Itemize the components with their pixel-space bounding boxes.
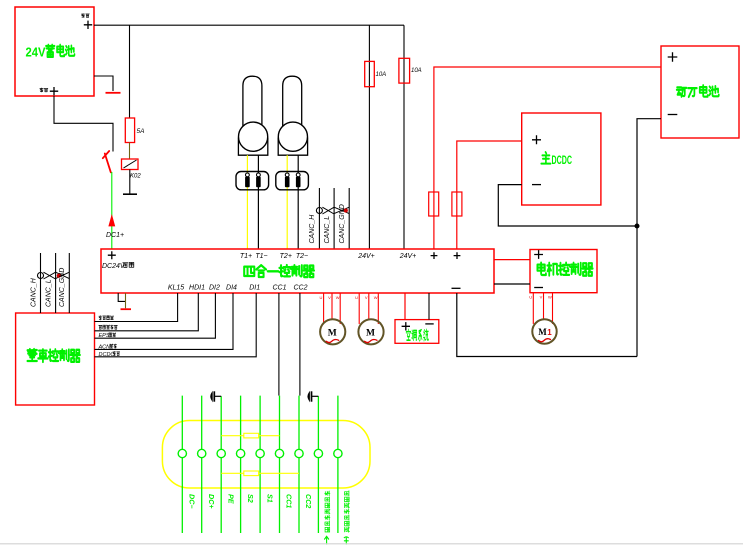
svg-text:KL15: KL15 (168, 285, 184, 292)
svg-text:CC1: CC1 (272, 285, 286, 292)
svg-text:DI2: DI2 (209, 285, 220, 292)
svg-text:1: 1 (547, 328, 552, 337)
svg-text:CC1: CC1 (285, 494, 294, 508)
svg-text:T1−: T1− (255, 253, 267, 260)
svg-text:DI4: DI4 (226, 285, 237, 292)
svg-text:24V+: 24V+ (357, 253, 375, 260)
svg-text:DC1+: DC1+ (106, 232, 124, 239)
svg-text:U: U (355, 295, 358, 300)
svg-text:10A: 10A (411, 68, 422, 74)
svg-text:CANC_H: CANC_H (309, 214, 316, 244)
svg-text:U: U (529, 295, 532, 300)
svg-text:V: V (328, 295, 331, 300)
svg-text:5A: 5A (137, 128, 145, 135)
svg-text:DCDC: DCDC (99, 352, 115, 358)
svg-text:CANC_L: CANC_L (45, 279, 52, 307)
svg-text:DC24V: DC24V (102, 263, 126, 270)
svg-text:24V: 24V (26, 45, 46, 60)
svg-text:S1: S1 (265, 494, 274, 503)
svg-text:T1+: T1+ (240, 253, 252, 260)
svg-text:W: W (548, 295, 552, 300)
svg-text:M: M (328, 328, 337, 338)
svg-text:T2−: T2− (296, 253, 308, 260)
svg-text:CANC_H: CANC_H (30, 277, 37, 307)
svg-text:DC+: DC+ (207, 494, 216, 509)
svg-text:10A: 10A (376, 72, 387, 78)
svg-text:S2: S2 (246, 494, 255, 503)
svg-text:M: M (366, 328, 375, 338)
svg-text:CANC_GND: CANC_GND (59, 268, 66, 307)
svg-text:W: W (336, 295, 340, 300)
svg-text:V: V (540, 295, 543, 300)
svg-text:PE: PE (226, 494, 235, 504)
svg-text:DC−: DC− (188, 494, 197, 509)
svg-text:DI1: DI1 (249, 285, 260, 292)
svg-text:K02: K02 (130, 174, 141, 180)
svg-text:CANC_L: CANC_L (324, 216, 331, 244)
svg-text:W: W (374, 295, 378, 300)
svg-text:CANC_GND: CANC_GND (339, 204, 346, 243)
svg-text:HDI1: HDI1 (189, 285, 205, 292)
svg-text:U: U (320, 295, 323, 300)
svg-text:24V+: 24V+ (399, 253, 417, 260)
svg-text:M: M (538, 327, 547, 337)
svg-text:V: V (365, 295, 368, 300)
svg-text:T2+: T2+ (280, 253, 292, 260)
svg-text:EPS: EPS (99, 333, 110, 339)
svg-text:CC2: CC2 (304, 494, 313, 508)
svg-text:CC2: CC2 (293, 285, 307, 292)
svg-text:ACN: ACN (98, 344, 111, 350)
svg-text:DCDC: DCDC (552, 155, 573, 167)
